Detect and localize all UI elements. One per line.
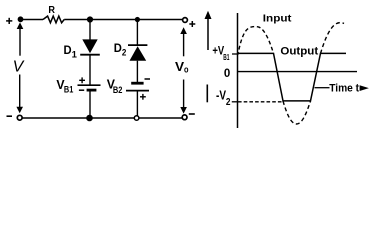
wire (D1 to battery VB1) <box>89 55 91 85</box>
svg-text:Input: Input <box>263 13 292 25</box>
junction (top rail / D2 branch) <box>135 17 140 22</box>
wire (top rail right segment) <box>64 19 182 21</box>
wire (Time label leader) <box>315 87 330 89</box>
wire (VB1 to bottom rail) <box>89 90 91 118</box>
arrow (time axis arrowhead) <box>360 85 369 91</box>
label - (VB1 negative) <box>79 89 84 91</box>
junction (top rail / D1 branch) <box>87 16 93 22</box>
svg-text:D: D <box>114 43 122 55</box>
svg-text:Output: Output <box>280 45 318 57</box>
diode D2 (pointing up) <box>128 45 147 61</box>
wire (D1 branch top) <box>89 20 91 41</box>
axis (graph time axis at 0) <box>238 71 358 73</box>
axis (graph y-axis) <box>237 13 239 128</box>
svg-text:1: 1 <box>72 50 78 61</box>
tick (+VB1 level) <box>232 53 238 55</box>
battery VB2 (short plate top -, long plate bottom +) <box>126 83 149 90</box>
wire (top rail left segment) <box>21 19 44 21</box>
label + (output positive) <box>189 21 195 27</box>
label + (VB1 positive) <box>79 77 85 83</box>
svg-text:o: o <box>184 64 189 74</box>
arrow (input V down arrow) <box>16 75 23 114</box>
wire (D2 branch top) <box>136 20 138 46</box>
wire (graph annotation lower bar) <box>206 85 208 103</box>
svg-text:B1: B1 <box>64 85 74 96</box>
svg-text:Time t: Time t <box>329 83 359 95</box>
diode D1 (pointing down) <box>80 39 100 54</box>
svg-text:2: 2 <box>122 48 127 59</box>
tick (-V2 level) <box>232 101 238 103</box>
label - (VB2 negative) <box>145 78 151 80</box>
label - (output negative) <box>189 113 195 115</box>
arrow (output Vo down arrow) <box>180 80 187 114</box>
curve (input waveform rising arch, dashed) <box>238 27 274 55</box>
svg-text:D: D <box>64 45 72 57</box>
curve (input waveform second arch, dashed) <box>321 23 345 54</box>
dashed line (-V2 level) <box>238 101 282 103</box>
battery VB1 (long plate top +, short plate bottom -) <box>78 85 101 90</box>
node + (input positive terminal plus sign) <box>6 18 12 24</box>
wire (bottom rail) <box>22 117 182 119</box>
svg-text:R: R <box>48 4 55 16</box>
resistor R <box>43 16 64 23</box>
arrow (output Vo up arrow) <box>180 27 187 56</box>
terminal (input negative, open circle) <box>17 115 22 120</box>
arrow (graph annotation up arrow) <box>205 11 212 50</box>
terminal (output negative, open circle) <box>182 115 187 120</box>
wire (D2 to battery VB2) <box>136 61 138 83</box>
label - (input negative) <box>7 115 13 117</box>
label + (VB2 positive) <box>140 94 146 100</box>
svg-text:0: 0 <box>224 66 231 80</box>
terminal (output positive, open circle) <box>183 18 188 23</box>
svg-text:B1: B1 <box>223 53 230 62</box>
arrow (input V up arrow) <box>17 22 24 55</box>
svg-text:2: 2 <box>226 97 231 108</box>
junction (bottom rail / VB1 branch, filled dot) <box>86 115 93 122</box>
junction (bottom rail / VB2 branch, open circle) <box>134 116 139 121</box>
svg-text:B2: B2 <box>113 85 123 96</box>
curve (output waveform, clipped) <box>238 53 347 101</box>
node A (input top node dot) <box>18 16 24 22</box>
wire (VB2 to bottom rail) <box>136 91 138 118</box>
curve (input waveform trough, dashed) <box>283 101 311 124</box>
svg-text:V: V <box>13 59 25 76</box>
